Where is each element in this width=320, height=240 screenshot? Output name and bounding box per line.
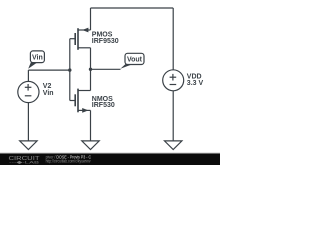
voltage source VDD (163, 70, 184, 91)
node junction dot drain/Vout (89, 68, 92, 71)
footer bar (0, 154, 220, 165)
NMOS gate lead (70, 100, 75, 102)
wire V2 bottom (27, 103, 29, 141)
NMOS channel line (77, 89, 79, 113)
NMOS gate plate (74, 94, 76, 106)
PMOS source lead (top) (78, 29, 91, 31)
node label Vout flag (120, 64, 131, 69)
node junction dot gate/Vin (68, 68, 71, 71)
svg-text:---◆-LAB: ---◆-LAB (9, 160, 40, 165)
wire Vin horizontal (28, 69, 69, 71)
ground (V2) (20, 141, 37, 150)
footer bar top edge (0, 152, 220, 155)
voltage source V2 (18, 81, 39, 102)
NMOS source arrow (points out of channel) (82, 108, 88, 113)
NMOS drain lead (top) (78, 90, 91, 92)
wire VDD bottom (172, 91, 174, 141)
wire PMOS source up (90, 8, 92, 30)
NMOS source lead (bottom) (78, 109, 91, 111)
svg-text:IRF9530: IRF9530 (92, 38, 119, 45)
svg-text:Vout: Vout (127, 57, 143, 64)
PMOS gate plate (74, 33, 76, 45)
PMOS drain lead (bottom) (78, 47, 91, 49)
wire gate bus (69, 39, 71, 101)
wire top rail VDD net (91, 7, 174, 9)
wire VDD drop to source (172, 8, 174, 70)
transistor Q PMOS IRF9530 (70, 28, 91, 50)
ground (NMOS source) (82, 141, 99, 150)
wire Vout stub (91, 68, 121, 70)
wire NMOS source down (90, 110, 92, 140)
svg-text:Vin: Vin (32, 54, 43, 61)
PMOS channel line (77, 28, 79, 50)
svg-text:Vin: Vin (43, 90, 54, 97)
svg-text:http://circuitlab.com/c/kyuwxn: http://circuitlab.com/c/kyuwxnv (46, 158, 92, 163)
transistor Q NMOS IRF530 (70, 89, 91, 113)
PMOS gate lead (70, 38, 75, 40)
ground (VDD) (165, 141, 182, 150)
wire drain bus PMOS-NMOS (90, 48, 92, 91)
PMOS source arrow (points into channel) (82, 28, 88, 33)
node label Vin flag (28, 62, 37, 69)
wire V2 top (27, 70, 29, 81)
svg-text:IRF530: IRF530 (92, 102, 115, 109)
svg-text:3.3 V: 3.3 V (187, 80, 204, 87)
